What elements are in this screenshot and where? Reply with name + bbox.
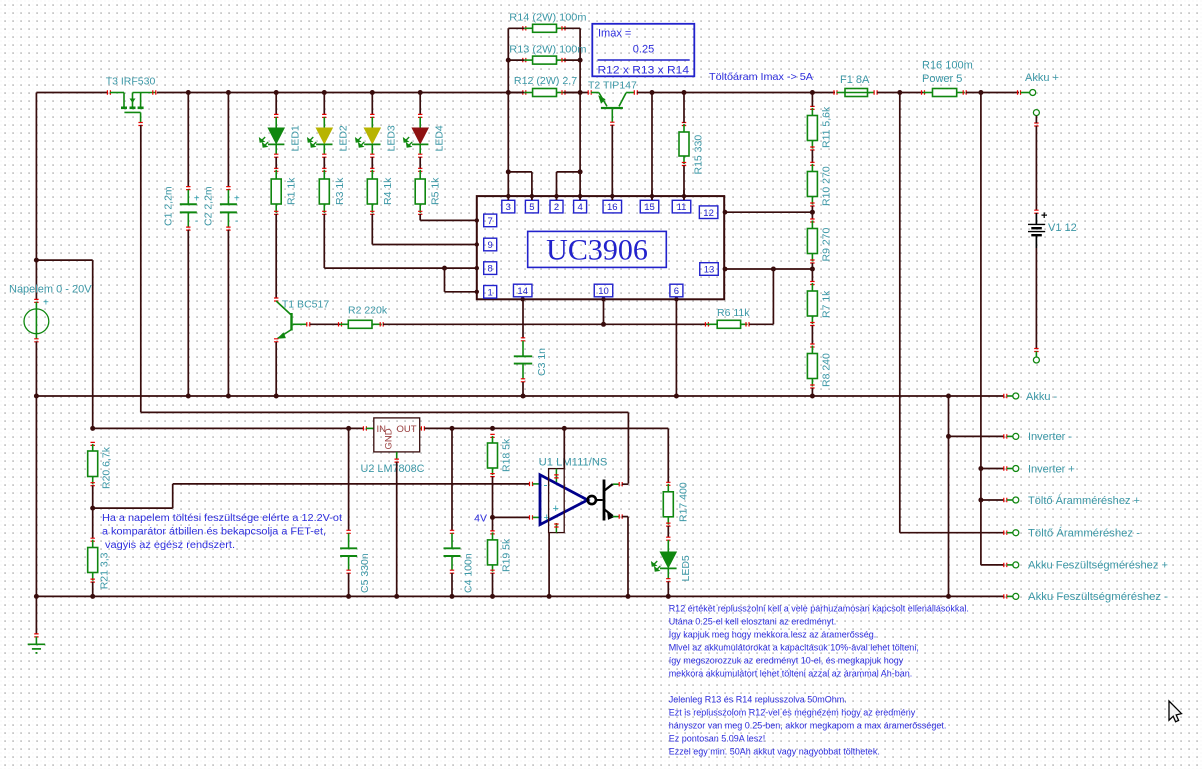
capacitor C3 1n <box>521 338 525 341</box>
junction comparator ref <box>90 506 95 511</box>
svg-text:GND: GND <box>384 428 395 449</box>
svg-text:U1 LM111/NS: U1 LM111/NS <box>539 457 608 469</box>
junction comp gnd rail <box>547 594 552 599</box>
junction R11 top <box>810 90 815 95</box>
svg-text:Inverter +: Inverter + <box>1028 463 1075 475</box>
junction bus B inverter+ <box>978 466 983 471</box>
svg-text:U2 LM7808C: U2 LM7808C <box>361 463 425 475</box>
pin 9 <box>484 238 497 251</box>
wire C4 bottom <box>451 573 453 596</box>
wire inverter- row <box>949 435 1005 437</box>
svg-text:+: + <box>194 194 200 205</box>
svg-text:a komparátor átbillen és bekap: a komparátor átbillen és bekapcsolja a F… <box>102 527 326 538</box>
junction pin 13 edge <box>723 267 728 272</box>
svg-text:R2 220k: R2 220k <box>348 305 388 317</box>
svg-text:OUT: OUT <box>397 424 417 435</box>
wire R7-R8 <box>811 326 813 345</box>
junction pin 2 edge <box>554 194 558 198</box>
svg-text:4: 4 <box>577 202 582 213</box>
wire OUT to R17 <box>667 428 669 482</box>
wire R1 to T1 <box>275 214 277 299</box>
junction pin 3 edge <box>506 194 510 198</box>
junction emitter rail <box>626 594 631 599</box>
junction comp supply <box>562 426 567 431</box>
svg-text:R17 400: R17 400 <box>678 482 690 522</box>
wire inverter+ row <box>981 468 1004 470</box>
wire tolto+ row <box>981 499 1004 501</box>
transistor comparator output <box>588 496 596 504</box>
resistor R15 330 <box>682 123 686 126</box>
svg-text:R4 1k: R4 1k <box>382 177 394 205</box>
svg-text:LED1: LED1 <box>290 125 302 151</box>
wire IN rail <box>93 427 364 429</box>
wire mid rail <box>36 395 1004 397</box>
pin 10 <box>594 284 613 297</box>
wire pin1 link <box>444 268 446 292</box>
wire green inverter- <box>1007 435 1013 437</box>
wire left vertical to bottom rail <box>35 396 37 596</box>
fuse F1 8A <box>834 90 837 94</box>
pin 12 <box>699 206 718 219</box>
resistor R1 1k <box>274 168 278 171</box>
wire R12 row left stub <box>508 92 524 94</box>
junction chain pin12 <box>810 210 815 215</box>
balance stub top <box>555 469 557 482</box>
svg-text:Ezt is replusszolom R12-vel és: Ezt is replusszolom R12-vel és megnézem … <box>669 707 916 717</box>
wire pin3 column <box>507 93 509 201</box>
junction pin 5 edge <box>530 194 534 198</box>
pin lead akku+ <box>1018 90 1021 94</box>
wire green tolto- <box>1007 532 1013 534</box>
junction pin 10 edge <box>601 297 605 301</box>
junction pin10 node <box>601 322 606 327</box>
pin lead tolto+ <box>1004 498 1007 502</box>
junction chain pin13 <box>810 267 815 272</box>
svg-text:UC3906: UC3906 <box>546 234 648 267</box>
wire node13 to R7 <box>811 269 813 282</box>
junction pin14 rail <box>521 394 526 399</box>
wire left vertical top <box>35 93 37 261</box>
junction pin 11 edge <box>682 194 686 198</box>
svg-text:R5 1k: R5 1k <box>430 177 442 205</box>
wire to ground <box>35 596 37 634</box>
svg-text:Inverter -: Inverter - <box>1028 431 1072 443</box>
junction pin13 R6 riser <box>771 267 776 272</box>
wire C2 top <box>227 93 229 188</box>
wire C5 bottom <box>348 573 350 596</box>
svg-text:C5 330n: C5 330n <box>359 553 371 593</box>
svg-text:T1 BC517: T1 BC517 <box>282 299 329 311</box>
wire collector green <box>613 483 620 485</box>
wire emitter down <box>622 516 628 518</box>
wire pin5 link <box>508 171 532 173</box>
pin 16 <box>603 200 622 213</box>
junction R13 left <box>506 58 511 63</box>
junction C4 top <box>450 426 455 431</box>
terminal Inverter - <box>1013 433 1019 439</box>
svg-text:Töltőáram Imax -> 5A: Töltőáram Imax -> 5A <box>709 71 813 83</box>
junction bus C inverter- <box>946 434 951 439</box>
junction R18 top <box>490 426 495 431</box>
wire green plus <box>532 516 540 518</box>
svg-text:LED3: LED3 <box>386 125 398 151</box>
junction LED2 top <box>322 90 327 95</box>
junction pin 8 edge <box>475 266 479 270</box>
wire green to akku+ terminal <box>1021 92 1030 94</box>
resistor R2 220k <box>339 322 342 326</box>
svg-text:így megszorozzuk az eredményt: így megszorozzuk az eredményt 10-el, és … <box>669 655 904 665</box>
svg-text:R8 240: R8 240 <box>821 353 833 387</box>
junction bus A top <box>897 90 902 95</box>
junction R13 right <box>578 58 583 63</box>
pin 1 <box>484 286 497 299</box>
wire rail seg5 <box>966 92 1019 94</box>
wire C2 bottom <box>227 230 229 396</box>
transistor T2 TIP147 pnp <box>588 90 591 94</box>
wire green minus <box>532 483 540 485</box>
junction C1 mid rail <box>186 394 191 399</box>
voltage regulator U2 LM7808C <box>363 426 366 430</box>
wire pin 3 entry <box>507 190 509 200</box>
junction mid rail left <box>34 394 39 399</box>
wire 4V to plus <box>493 516 530 518</box>
svg-text:Imax =: Imax = <box>598 28 631 40</box>
battery V1 12 <box>1034 123 1038 126</box>
wire R11-R10 <box>811 150 813 163</box>
wire R15 to pin11 <box>683 166 685 201</box>
svg-text:2: 2 <box>554 202 559 213</box>
annotation box Imax <box>592 24 694 77</box>
junction C1 top <box>186 90 191 95</box>
resistor R13 (2W) 100m <box>523 58 526 62</box>
svg-text:+: + <box>234 194 240 205</box>
junction pin 9 edge <box>475 242 479 246</box>
wire R19 top <box>492 517 494 531</box>
svg-text:C3 1n: C3 1n <box>536 348 548 376</box>
junction bus B tolto+ <box>978 498 983 503</box>
wire R10 to node <box>811 206 813 212</box>
wire pin 16 entry <box>611 190 613 200</box>
wire green tolto+ <box>1007 499 1013 501</box>
resistor R6 11k <box>705 322 708 326</box>
pin plus <box>530 515 533 519</box>
wire supply to rect <box>563 428 565 468</box>
svg-text:R20 6,7k: R20 6,7k <box>101 446 113 489</box>
junction LED5 rail <box>666 594 671 599</box>
pin 6 <box>670 284 683 297</box>
svg-text:+: + <box>1041 210 1047 222</box>
svg-text:R18 5k: R18 5k <box>501 438 513 472</box>
resistor R5 1k <box>418 168 422 171</box>
wire pin16 column <box>611 125 613 200</box>
svg-text:R9 270: R9 270 <box>821 227 833 261</box>
resistor R9 270 <box>810 219 814 222</box>
svg-text:C4 100n: C4 100n <box>462 553 474 593</box>
wire LED4 to resistor <box>419 157 421 169</box>
junction pin 12 edge <box>723 210 728 215</box>
svg-text:9: 9 <box>488 240 493 251</box>
junction R19 rail <box>490 594 495 599</box>
wire pin15 column <box>651 93 653 201</box>
svg-text:Töltő Áramméréshez +: Töltő Áramméréshez + <box>1028 494 1140 507</box>
pin 8 <box>484 262 497 275</box>
pin 4 <box>574 200 587 213</box>
svg-text:T2 TIP147: T2 TIP147 <box>588 80 637 92</box>
wire pin 15 entry <box>651 190 653 200</box>
svg-text:7: 7 <box>488 216 493 227</box>
junction R12 right <box>578 90 583 95</box>
wire bus C <box>948 396 950 596</box>
wire C5 top <box>348 428 350 530</box>
junction C2 top <box>226 90 231 95</box>
junction LED3 top <box>370 90 375 95</box>
svg-text:R11 5,6k: R11 5,6k <box>821 106 833 148</box>
terminal Akku Feszultsegmereshez - <box>1013 593 1019 599</box>
svg-text:T3 IRF530: T3 IRF530 <box>106 76 156 88</box>
pin 3 <box>502 200 515 213</box>
ground <box>34 634 38 637</box>
svg-text:Jelenleg R13 és R14 replusszol: Jelenleg R13 és R14 replusszolva 50mOhm. <box>669 694 847 704</box>
wire rail seg3 <box>637 92 835 94</box>
resistor R16 100m on rail <box>922 90 925 94</box>
junction pin6 rail <box>674 394 679 399</box>
resistor R14 (2W) 100m <box>523 26 526 30</box>
svg-text:+: + <box>43 298 49 309</box>
pin lead akkuF+ <box>1004 563 1007 567</box>
svg-text:R3 1k: R3 1k <box>334 177 346 205</box>
wire pin 5 entry <box>531 190 533 200</box>
op-amp U1 LM111/NS triangle <box>540 475 588 525</box>
resistor R12 (2W) 2,7 on rail <box>523 90 526 94</box>
svg-text:R1 1k: R1 1k <box>286 177 298 205</box>
svg-text:vagyis az egész rendszert.: vagyis az egész rendszert. <box>102 540 235 551</box>
svg-text:R10 270: R10 270 <box>821 166 833 206</box>
svg-text:11: 11 <box>677 202 687 213</box>
junction IN rail left <box>90 426 95 431</box>
resistor R10 270 <box>810 162 814 165</box>
pin 5 <box>525 200 538 213</box>
wire LED1 top <box>275 93 277 115</box>
terminal Tolto Arammereshez + <box>1013 497 1019 503</box>
svg-text:C1 2,2m: C1 2,2m <box>162 186 174 226</box>
wire rect to bottom rail <box>548 533 550 597</box>
pin lead inverter- <box>1004 434 1007 438</box>
junction pin 15 edge <box>650 194 654 198</box>
resistor R4 1k <box>370 168 374 171</box>
junction pin 7 edge <box>475 218 479 222</box>
LED LED1 <box>274 114 278 117</box>
wire LED2 to resistor <box>323 157 325 169</box>
junction pin15 column <box>650 90 655 95</box>
wire green akku- <box>1007 395 1013 397</box>
svg-text:10: 10 <box>598 286 609 297</box>
wire R5 to pin7 <box>419 214 421 220</box>
svg-text:8: 8 <box>488 264 493 275</box>
wire R8 to mid rail <box>811 388 813 396</box>
transistor T3 IRF530 mosfet symbol <box>107 90 110 94</box>
LED LED3 <box>370 114 374 117</box>
svg-text:12: 12 <box>703 208 714 219</box>
wire C3 to rail <box>522 382 524 396</box>
wire junction to R21 <box>92 508 94 538</box>
junction C5 rail <box>346 594 351 599</box>
svg-text:Ha a napelem töltési feszültsé: Ha a napelem töltési feszültsége elérte … <box>102 513 342 524</box>
svg-text:Utána 0.25-el kell elosztani a: Utána 0.25-el kell elosztani az eredmény… <box>669 616 837 626</box>
capacitor C1 2,2m <box>186 187 190 190</box>
wire R11 top lead <box>811 93 813 107</box>
capacitor C4 100n <box>450 530 454 533</box>
mouse cursor <box>1169 701 1182 722</box>
junction R8 rail <box>810 394 815 399</box>
svg-text:R15 330: R15 330 <box>693 135 705 175</box>
junction pin24 link <box>578 169 583 174</box>
pin lead inverter+ <box>1004 466 1007 470</box>
wire C4 top <box>451 428 453 530</box>
wire R3 to pin8 <box>323 214 325 268</box>
wire pin 2 entry <box>556 190 558 200</box>
resistor R19 5k <box>490 531 494 534</box>
svg-text:R19 5k: R19 5k <box>501 538 513 572</box>
junction pin 1 edge <box>475 290 479 294</box>
wire rail seg4 <box>877 92 923 94</box>
resistor R8 240 <box>810 344 814 347</box>
terminal Akku Feszultsegmereshez + <box>1013 562 1019 568</box>
wire pin10 down <box>603 299 605 324</box>
svg-text:4V: 4V <box>474 513 487 525</box>
wire emitter green <box>613 516 620 518</box>
pin lead tolto- <box>1004 531 1007 535</box>
wire pin 11 entry <box>683 190 685 200</box>
wire R14 row right stub <box>564 27 581 29</box>
wire C1 top <box>187 93 189 188</box>
wire bus A <box>899 93 901 533</box>
svg-text:-: - <box>195 216 198 227</box>
wire R13 row right stub <box>564 59 581 61</box>
resistor R18 5k <box>490 434 494 437</box>
junction U2 gnd rail <box>394 594 399 599</box>
resistor R20 6,7k <box>91 442 95 445</box>
UC3906 label box <box>528 231 667 267</box>
wire R12 row right stub <box>564 92 581 94</box>
wire LED2 top <box>323 93 325 115</box>
wire U2 GND down <box>396 462 398 596</box>
transistor T1 BC517 npn <box>274 298 278 301</box>
svg-text:mekkora akkumulátort lehet töl: mekkora akkumulátort lehet tölteni azzal… <box>669 668 913 678</box>
wire R14 loop left <box>507 28 509 92</box>
terminal battery top <box>1033 110 1039 116</box>
svg-text:R7 1k: R7 1k <box>821 290 833 318</box>
wire rail to T2 <box>565 92 589 94</box>
pin lead akku- <box>1004 394 1007 398</box>
svg-text:-: - <box>544 478 548 492</box>
pin minus <box>530 482 533 486</box>
svg-text:-: - <box>235 216 238 227</box>
wire pin13 to chain <box>725 268 812 270</box>
svg-text:Napelem 0 - 20V: Napelem 0 - 20V <box>9 284 92 296</box>
wire top rail seg2 <box>157 92 523 94</box>
pin 7 <box>484 214 497 227</box>
svg-text:Így kapjuk meg hogy mekkora le: Így kapjuk meg hogy mekkora lesz az áram… <box>669 629 877 639</box>
voltage source Napelem 0 - 20V <box>34 299 38 302</box>
svg-text:Akku -: Akku - <box>1026 391 1058 403</box>
wire R4 to pin9 <box>371 214 373 245</box>
terminal Akku - <box>1013 393 1019 399</box>
pin 14 <box>513 284 532 297</box>
junction C5 top <box>346 426 351 431</box>
svg-text:15: 15 <box>644 202 655 213</box>
wire pin14 down <box>522 299 524 338</box>
terminal Inverter + <box>1013 466 1019 472</box>
svg-text:16: 16 <box>607 202 618 213</box>
wire napelem branch <box>36 259 92 261</box>
junction LED1 top <box>274 90 279 95</box>
svg-text:14: 14 <box>517 286 528 297</box>
junction pin 4 edge <box>578 194 582 198</box>
wire R9 to node13 <box>811 263 813 269</box>
wire LED5 to rail <box>667 582 669 597</box>
junction R15 top <box>682 90 687 95</box>
wire LED3 to resistor <box>371 157 373 169</box>
pin 2 <box>550 200 563 213</box>
svg-text:LED5: LED5 <box>680 555 692 581</box>
wire pin6 down <box>675 299 677 396</box>
junction bottom rail R21 <box>90 594 95 599</box>
junction busC rail <box>946 394 951 399</box>
junction pin 6 edge <box>674 297 678 301</box>
wire R20 to junction <box>92 486 94 509</box>
svg-text:Ez pontosan 5.09A lesz!: Ez pontosan 5.09A lesz! <box>669 733 766 743</box>
wire R14 row left stub <box>508 27 524 29</box>
svg-text:13: 13 <box>704 265 715 276</box>
wire pin2 link <box>557 171 581 173</box>
junction bus B top <box>978 90 983 95</box>
wire pin4 column <box>579 93 581 201</box>
svg-text:Akku +: Akku + <box>1025 72 1059 84</box>
wire green inverter+ <box>1007 468 1013 470</box>
wire T3 gate long <box>140 125 142 412</box>
junction C2 mid rail <box>226 394 231 399</box>
wire pin 4 entry <box>579 190 581 200</box>
junction napelem branch <box>34 258 39 263</box>
junction 4V <box>490 515 495 520</box>
svg-text:R21 3,3: R21 3,3 <box>99 552 111 589</box>
wire green akkuF+ <box>1007 564 1013 566</box>
svg-text:0.25: 0.25 <box>633 44 654 56</box>
junction pin 14 edge <box>521 297 525 301</box>
terminal battery bottom <box>1033 357 1039 363</box>
wire collector to gate line <box>622 483 628 485</box>
capacitor C2 2,2m <box>226 187 230 190</box>
wire C1 bottom <box>187 230 189 396</box>
svg-text:R14 (2W) 100m: R14 (2W) 100m <box>509 12 586 24</box>
LED LED2 <box>322 114 326 117</box>
wire divider column top <box>92 260 94 428</box>
wire R14 loop right <box>579 28 581 92</box>
svg-text:Akku Feszültségméréshez +: Akku Feszültségméréshez + <box>1028 560 1168 572</box>
svg-text:R12 értékét replusszolni kell: R12 értékét replusszolni kell a vele pár… <box>669 603 969 613</box>
svg-text:1: 1 <box>488 287 493 298</box>
svg-text:R6 11k: R6 11k <box>717 307 750 319</box>
junction pin35 link <box>506 169 511 174</box>
svg-text:3: 3 <box>506 202 511 213</box>
wire minus input <box>93 507 173 509</box>
svg-text:hányszor van meg 0.25-ben, akk: hányszor van meg 0.25-ben, akkor megkapo… <box>669 720 947 730</box>
wire R18 to 4V <box>492 477 494 518</box>
wire bus B <box>980 93 982 565</box>
svg-text:R13 (2W) 100m: R13 (2W) 100m <box>509 44 586 56</box>
junction R12 left <box>506 90 511 95</box>
svg-text:+: + <box>553 503 559 515</box>
